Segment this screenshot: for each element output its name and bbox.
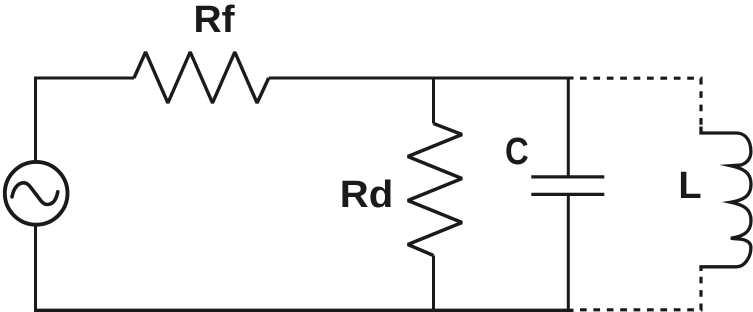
wire left vertical — [34, 78, 37, 310]
wire dashed top — [580, 78, 701, 133]
wire bottom — [34, 309, 574, 312]
svg-text:L: L — [678, 165, 701, 207]
wire top left segment — [34, 77, 134, 80]
svg-text:C: C — [505, 131, 529, 173]
resistor Rf — [134, 52, 269, 103]
AC source — [5, 162, 68, 225]
svg-text:Rd: Rd — [340, 174, 394, 216]
inductor L — [701, 127, 751, 272]
capacitor C top plate — [531, 175, 604, 178]
wire capacitor bottom lead — [567, 193, 570, 310]
wire Rd top lead — [432, 78, 435, 124]
wire dashed bottom — [580, 276, 701, 310]
resistor Rd — [408, 124, 462, 256]
wire capacitor top lead — [567, 78, 570, 178]
svg-text:Rf: Rf — [194, 0, 235, 41]
wire top middle segment — [269, 77, 574, 80]
capacitor C bottom plate — [531, 193, 604, 196]
wire Rd bottom lead — [432, 256, 435, 311]
AC source sine wave — [12, 183, 58, 205]
